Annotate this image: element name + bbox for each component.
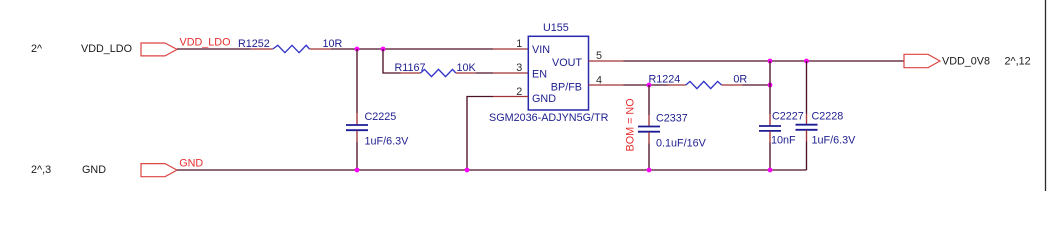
sheet border right edge <box>1045 0 1047 191</box>
text BOM = NO (vertical) <box>625 98 637 151</box>
wire node A down to C2225 <box>356 49 358 113</box>
svg-text:2^,3: 2^,3 <box>31 164 51 176</box>
resistor R1252 right pin <box>310 48 332 50</box>
svg-text:VDD_LDO: VDD_LDO <box>180 36 231 48</box>
svg-text:U155: U155 <box>543 22 569 34</box>
capacitor C2337 <box>638 127 660 132</box>
svg-text:GND: GND <box>179 158 203 170</box>
label C2225 <box>365 111 397 123</box>
junction GND rail at C2225 <box>355 168 360 173</box>
offpage text VDD_0V8 <box>942 56 990 68</box>
svg-text:BOM = NO: BOM = NO <box>625 98 637 151</box>
wire GND pin2 to rail <box>467 97 493 171</box>
value 0.1uF/16V <box>656 137 707 149</box>
wire C2337 branch vertical <box>648 85 650 115</box>
svg-text:GND: GND <box>532 93 556 105</box>
resistor R1224 <box>686 81 722 88</box>
label C2227 <box>772 110 804 122</box>
junction VOUT at C2228 branch <box>804 59 809 64</box>
op-amp style IC body U155 <box>528 36 588 110</box>
part number SGM2036-ADJYN5G/TR <box>489 112 609 124</box>
pin stub U155 pin3 EN <box>493 72 528 74</box>
wire C2227 to GND rail <box>769 143 771 171</box>
label R1167 <box>395 62 426 74</box>
wire C2228 to GND rail <box>806 142 808 171</box>
junction VOUT at C2227 branch <box>768 59 773 64</box>
capacitor C2337 bottom lead <box>648 132 650 144</box>
junction GND rail at U155 pin2 <box>465 168 470 173</box>
svg-text:2^: 2^ <box>31 43 43 55</box>
label R1252 <box>238 38 270 50</box>
text page ref 2^,3 <box>31 164 51 176</box>
pin number 1 <box>516 38 522 50</box>
wire R1252 to U155 VIN <box>331 48 493 50</box>
offpage text GND <box>82 164 106 176</box>
capacitor C2225 <box>346 125 368 130</box>
wire C2227 branch vertical <box>769 85 771 114</box>
label R1224 <box>649 73 681 85</box>
pin number 2 <box>516 86 522 98</box>
capacitor C2337 top lead <box>648 115 650 126</box>
svg-text:2^,12: 2^,12 <box>1005 56 1031 68</box>
capacitor C2227 top lead <box>769 114 771 126</box>
svg-text:R1224: R1224 <box>649 73 681 85</box>
wire VDD_LDO: port to R1252 <box>177 48 251 50</box>
text page ref 2^,12 <box>1005 56 1031 68</box>
label C2228 <box>812 110 844 122</box>
svg-text:1: 1 <box>516 38 522 50</box>
wire EN branch vertical <box>383 49 401 73</box>
svg-text:VOUT: VOUT <box>552 57 582 69</box>
capacitor C2228 bottom lead <box>806 130 808 141</box>
capacitor C2227 <box>759 126 781 131</box>
wire riser x770 from VOUT to BP/FB <box>769 61 771 85</box>
svg-text:0R: 0R <box>733 73 747 85</box>
port GND <box>141 164 177 177</box>
capacitor C2227 bottom lead <box>769 131 771 142</box>
junction BP/FB at C2337 branch <box>647 83 652 88</box>
junction GND rail at C2337 <box>647 168 652 173</box>
net label GND <box>179 158 203 170</box>
junction BP/FB at riser x770 <box>768 83 773 88</box>
svg-text:VDD_0V8: VDD_0V8 <box>942 56 990 68</box>
offpage text VDD_LDO <box>81 43 132 55</box>
pin number 5 <box>596 50 602 62</box>
wire C2337 to GND rail <box>648 144 650 171</box>
capacitor C2228 <box>796 125 818 130</box>
wire GND rail <box>177 169 807 171</box>
svg-text:R1252: R1252 <box>238 38 270 50</box>
capacitor C2228 top lead <box>806 114 808 125</box>
value 10nF <box>771 134 796 146</box>
pin number 4 <box>596 74 602 86</box>
capacitor C2225 bottom lead <box>356 131 358 142</box>
resistor R1224 right pin <box>722 84 743 86</box>
svg-text:C2225: C2225 <box>365 111 397 123</box>
resistor R1167 right pin <box>456 72 476 74</box>
value 1uF/6.3V <box>812 135 857 147</box>
resistor R1252 <box>273 45 310 52</box>
svg-text:C2337: C2337 <box>656 112 688 124</box>
wire VOUT net to port VDD_0V8 <box>624 60 905 62</box>
port VDD_LDO (input) <box>141 43 177 56</box>
text page ref 2^ (left of VDD_LDO off-page) <box>31 43 43 55</box>
pin stub U155 pin2 GND <box>493 96 528 98</box>
wire R1167 to U155 EN <box>476 72 493 74</box>
svg-text:SGM2036-ADJYN5G/TR: SGM2036-ADJYN5G/TR <box>489 112 609 124</box>
resistor R1167 left pin <box>401 72 421 74</box>
pin number 3 <box>516 62 522 74</box>
label C2337 <box>656 112 688 124</box>
svg-text:C2228: C2228 <box>812 110 844 122</box>
junction at EN branch on VDD_LDO net <box>381 47 386 52</box>
wire C2225 to GND rail <box>356 142 358 170</box>
value 10K <box>457 62 477 74</box>
svg-text:R1167: R1167 <box>395 62 426 74</box>
value 10R <box>323 38 343 50</box>
svg-text:10nF: 10nF <box>771 134 796 146</box>
svg-text:BP/FB: BP/FB <box>551 81 582 93</box>
svg-text:1uF/6.3V: 1uF/6.3V <box>365 135 410 147</box>
svg-text:EN: EN <box>532 68 547 80</box>
svg-text:VDD_LDO: VDD_LDO <box>81 43 132 55</box>
pin name GND <box>532 93 556 105</box>
pin name VIN <box>532 44 550 56</box>
svg-text:0.1uF/16V: 0.1uF/16V <box>656 137 707 149</box>
value 1uF/6.3V <box>365 135 410 147</box>
port VDD_0V8 (output) <box>904 54 940 67</box>
pin stub U155 pin5 VOUT <box>589 60 624 62</box>
pin name EN <box>532 68 547 80</box>
junction GND rail at C2227 <box>768 168 773 173</box>
resistor R1224 left pin <box>666 84 686 86</box>
svg-text:5: 5 <box>596 50 602 62</box>
svg-text:3: 3 <box>516 62 522 74</box>
pin name VOUT <box>552 57 582 69</box>
pin name BP/FB <box>551 81 582 93</box>
resistor R1167 <box>421 69 456 76</box>
junction at C2225 branch on VDD_LDO net <box>355 47 360 52</box>
svg-text:1uF/6.3V: 1uF/6.3V <box>812 135 857 147</box>
wire C2228 branch vertical <box>806 61 808 114</box>
svg-text:C2227: C2227 <box>772 110 804 122</box>
svg-text:10K: 10K <box>457 62 477 74</box>
capacitor C2225 top lead <box>356 113 358 125</box>
value 0R <box>733 73 747 85</box>
resistor R1252 left pin <box>251 48 273 50</box>
svg-text:GND: GND <box>82 164 106 176</box>
wire BP/FB to R1224 <box>624 84 669 86</box>
svg-text:VIN: VIN <box>532 44 550 56</box>
label U155 <box>543 22 569 34</box>
wire R1224 to x770 riser <box>743 84 771 86</box>
net label VDD_LDO <box>180 36 231 48</box>
pin stub U155 pin4 BP/FB <box>589 84 624 86</box>
pin stub U155 pin1 VIN <box>493 48 528 50</box>
